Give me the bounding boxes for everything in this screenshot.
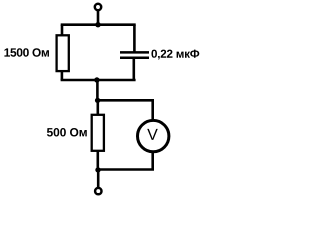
capacitor C1 bottom plate xyxy=(120,56,149,59)
wire voltmeter branch lower stub xyxy=(151,153,154,170)
node 4 junction dot xyxy=(95,167,100,172)
node 1 junction dot xyxy=(95,22,100,27)
node 2 junction dot xyxy=(94,77,99,82)
terminal T1 (top input terminal) xyxy=(95,4,101,10)
voltmeter V1 body xyxy=(138,120,169,151)
value label 500 Ом xyxy=(47,128,87,137)
wire from terminal T1 to node 1 xyxy=(97,11,100,25)
resistor R2 body xyxy=(92,115,104,151)
wire node 3 to voltmeter branch xyxy=(97,99,154,102)
value label 0,22 мкФ xyxy=(151,50,199,60)
wire right branch lower stub xyxy=(133,59,136,80)
capacitor C1 top plate xyxy=(120,51,149,54)
wire node 2 to node 3 xyxy=(96,80,99,100)
wire top horizontal bus xyxy=(61,23,136,26)
voltmeter V1 letter V xyxy=(147,129,158,140)
wire bottom horizontal bus of top section xyxy=(61,79,136,82)
node 3 junction dot xyxy=(95,98,100,103)
wire resistor R2 lower stub xyxy=(97,151,100,170)
terminal T2 (bottom output terminal) xyxy=(95,188,101,194)
resistor R1 body xyxy=(57,35,69,71)
value label 1500 Ом xyxy=(4,48,49,57)
wire right branch upper stub xyxy=(133,25,136,52)
wire resistor R2 upper stub xyxy=(97,100,100,115)
wire left branch upper stub xyxy=(61,25,64,36)
wire node 4 to terminal T2 xyxy=(97,170,100,187)
wire voltmeter branch upper stub xyxy=(151,100,154,120)
wire bottom horizontal bus of lower section xyxy=(97,168,154,171)
wire left branch lower stub xyxy=(61,71,64,81)
